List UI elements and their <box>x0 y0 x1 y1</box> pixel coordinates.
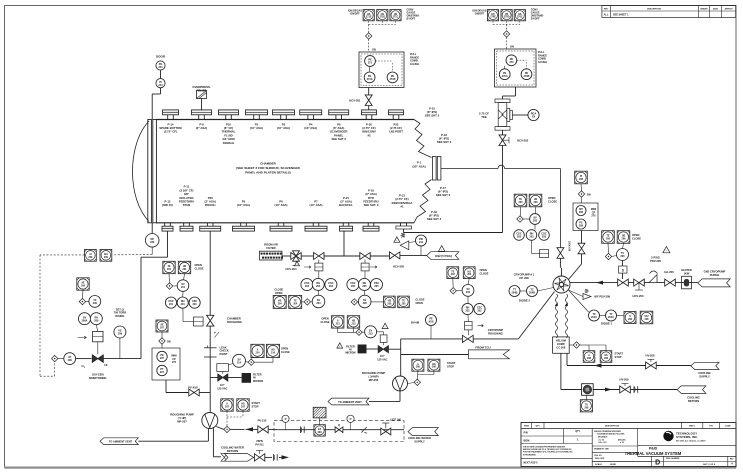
svg-text:214: 214 <box>271 351 276 354</box>
valve MV mech <box>335 424 343 433</box>
svg-text:P/O: P/O <box>709 426 713 428</box>
svg-text:270: 270 <box>509 61 514 64</box>
svg-text:HCV-203: HCV-203 <box>633 294 644 298</box>
svg-text:700 TORR: 700 TORR <box>114 311 126 315</box>
full range comb gauge 1 (PE-271) <box>359 52 420 88</box>
svg-text:#2: #2 <box>367 133 371 137</box>
svg-text:DRAWN BY JMS: DRAWN BY JMS <box>594 448 609 451</box>
svg-text:XXX: XXX <box>428 321 433 324</box>
svg-text:ITEM: ITEM <box>524 426 529 428</box>
svg-text:(NW 16): (NW 16) <box>162 203 172 207</box>
valve PV-210 <box>246 418 275 433</box>
full range comb gauge 2 (PE-270) <box>495 49 548 87</box>
wire cryo roughing diagonal <box>473 292 554 339</box>
svg-text:(10" ASA): (10" ASA) <box>304 126 317 130</box>
svg-text:STOP: STOP <box>615 355 622 359</box>
svg-text:OPEN: OPEN <box>275 291 282 295</box>
svg-text:201: 201 <box>181 286 186 289</box>
chamber label <box>236 162 300 175</box>
filter 40 micron (chamber) <box>242 373 264 383</box>
svg-text:THERMAL VACUUM SYSTEM: THERMAL VACUUM SYSTEM <box>625 451 682 456</box>
controller TV-206 <box>605 249 628 280</box>
svg-text:207: 207 <box>241 406 246 409</box>
RGA-XX analyzer <box>512 109 539 120</box>
svg-text:209: 209 <box>88 256 93 259</box>
wire TCU line <box>401 354 469 356</box>
panel TE-201 / HS-201 open-close <box>163 261 204 283</box>
svg-text:(SEE SHEET 3 FOR SHROUD, SCAVE: (SEE SHEET 3 FOR SHROUD, SCAVENGER <box>236 166 300 170</box>
svg-text:MP-207: MP-207 <box>177 420 187 424</box>
flag TO AMBIENT VENT 1 <box>100 428 208 444</box>
svg-text:HELIUM: HELIUM <box>556 339 566 343</box>
svg-text:201: 201 <box>167 268 172 271</box>
port P-19 <box>363 188 379 231</box>
port P-21 <box>339 196 353 231</box>
svg-text:271E: 271E <box>366 16 372 19</box>
svg-text:209: 209 <box>104 256 109 259</box>
svg-text:208: 208 <box>416 366 421 369</box>
flow arrow cooling supply <box>594 363 602 367</box>
svg-text:202: 202 <box>467 273 472 276</box>
svg-text:ON: ON <box>372 49 376 52</box>
svg-text:SUPPLY: SUPPLY <box>699 375 710 379</box>
svg-text:203: 203 <box>517 236 522 239</box>
svg-text:270E: 270E <box>490 16 496 19</box>
svg-text:START: START <box>615 352 624 356</box>
warning triangle purge2 <box>382 323 388 329</box>
svg-text:CHAMBER: CHAMBER <box>227 317 241 321</box>
solenoid SV-205 cluster <box>351 295 383 308</box>
svg-text:!: ! <box>339 345 340 349</box>
svg-text:271: 271 <box>368 62 373 65</box>
svg-text:CC-208: CC-208 <box>556 345 565 349</box>
relays CSC/RH/CSC-203 <box>514 224 550 240</box>
revision table <box>602 6 736 18</box>
svg-text:204: 204 <box>293 302 298 305</box>
wire + arrow to HV-209 <box>593 388 620 392</box>
svg-text:CLOSE: CLOSE <box>281 351 290 354</box>
filter/adsorber <box>582 384 594 396</box>
svg-text:CLOSE: CLOSE <box>632 237 641 241</box>
hand switches gauge 2 <box>472 9 544 50</box>
roughing pump MP-208 <box>362 371 408 391</box>
svg-text:HV-XXX: HV-XXX <box>568 241 572 251</box>
svg-text:204A: 204A <box>591 316 597 319</box>
wire GN2 manifold <box>282 231 427 256</box>
svg-text:TO AMBIENT VENT: TO AMBIENT VENT <box>109 440 133 444</box>
valve HCV-202 <box>499 130 529 165</box>
solenoid SV-214 <box>228 354 273 367</box>
solenoid SV-204 cluster <box>302 295 325 308</box>
svg-text:ON/OFF: ON/OFF <box>350 13 360 16</box>
svg-text:SEE SHT 3: SEE SHT 3 <box>437 140 452 144</box>
svg-text:OPEN: OPEN <box>480 268 487 272</box>
node diamond helium <box>569 342 606 351</box>
svg-text:205: 205 <box>387 302 392 305</box>
node diamond oxygen <box>79 296 101 308</box>
check valve helium return <box>630 386 677 392</box>
svg-text:202: 202 <box>466 291 471 294</box>
wire cooling supply line <box>567 353 646 365</box>
panel S-208 / TAZ-208 <box>624 311 653 324</box>
relays 204 CSC/RH/CSC <box>301 271 337 295</box>
svg-text:205: 205 <box>374 285 379 288</box>
svg-text:STOP: STOP <box>252 404 259 408</box>
svg-text:PV-211: PV-211 <box>255 442 264 446</box>
svg-text:LN2 PORT: LN2 PORT <box>389 130 403 134</box>
svg-text:MAT'L: MAT'L <box>689 425 696 428</box>
svg-text:ON: ON <box>510 46 514 49</box>
port P7 <box>305 200 327 232</box>
diode 2 sensors TT-204B TC-204B <box>509 286 554 303</box>
svg-text:(10" ASA): (10" ASA) <box>250 126 263 130</box>
wire gauge2 to tee <box>503 87 516 99</box>
solenoid SV-209A / RV-209 <box>79 313 103 332</box>
svg-text:230: 230 <box>150 241 155 244</box>
svg-text:201: 201 <box>181 303 186 306</box>
svg-text:1KW: 1KW <box>684 272 690 276</box>
valve TV-206 body <box>618 279 629 286</box>
svg-text:407 147th. Ave. Madeira, Ca. 9: 407 147th. Ave. Madeira, Ca. 95670 <box>676 440 705 443</box>
svg-text:205: 205 <box>363 302 368 305</box>
svg-text:CLOSE: CLOSE <box>548 200 557 204</box>
flag FROM TCU <box>469 345 510 359</box>
check valve mech pump <box>301 427 305 433</box>
svg-text:DATE: DATE <box>713 8 719 11</box>
port P-13 with flange <box>392 194 413 233</box>
svg-text:214: 214 <box>237 361 242 364</box>
svg-text:SEE SHT 3: SEE SHT 3 <box>425 114 440 118</box>
helium flex lines <box>555 294 568 338</box>
valve HCV-203 <box>633 279 645 298</box>
svg-text:PANEL AND PLATEN DETAILS): PANEL AND PLATEN DETAILS) <box>245 171 291 175</box>
svg-text:204: 204 <box>278 302 283 305</box>
port P23 <box>200 196 221 231</box>
panel A-214 / HS-214 open-close <box>251 344 290 357</box>
flag COOLING WATER SUPPLY <box>408 428 438 444</box>
svg-text:205: 205 <box>351 285 356 288</box>
svg-text:STUB: STUB <box>183 203 191 207</box>
analyzer AE-207 <box>156 320 171 348</box>
union mech pump <box>360 427 367 433</box>
svg-text:BOM: BOM <box>524 439 530 442</box>
svg-text:DN: DN <box>587 194 591 197</box>
valve PV-211 <box>254 439 272 461</box>
svg-text:BY/OFF: BY/OFF <box>531 18 540 21</box>
svg-text:206: 206 <box>622 238 627 241</box>
gauge P mech 1 <box>282 415 289 430</box>
svg-text:270C: 270C <box>517 16 523 19</box>
svg-text:CHAMBER: CHAMBER <box>260 162 277 166</box>
svg-text:(2" ASA): (2" ASA) <box>196 126 207 130</box>
svg-text:909: 909 <box>318 431 323 434</box>
svg-text:CLOSE: CLOSE <box>274 288 283 292</box>
solenoid SV-213 <box>356 326 384 338</box>
cryopump gate valve <box>557 248 564 268</box>
solenoid SV-203 <box>517 214 541 225</box>
svg-text:D: D <box>655 460 660 467</box>
panel TE/HS open-close (cryo purge) <box>321 316 360 333</box>
svg-text:209: 209 <box>81 285 86 288</box>
svg-text:DESCRIPTION: DESCRIPTION <box>605 426 620 428</box>
svg-text:SHT. 2 OF 4: SHT. 2 OF 4 <box>703 463 716 466</box>
svg-text:DOOR: DOOR <box>156 55 166 59</box>
svg-text:244: 244 <box>158 84 163 87</box>
label P-15 <box>425 107 440 118</box>
svg-text:FILTER: FILTER <box>266 246 275 250</box>
wire cryopump inlet <box>561 268 563 276</box>
svg-text:270: 270 <box>591 215 596 218</box>
svg-text:204A: 204A <box>608 316 614 319</box>
svg-text:MICRON: MICRON <box>345 352 355 355</box>
svg-text:209: 209 <box>93 302 98 305</box>
valve HA-206 <box>664 270 675 286</box>
svg-text:203: 203 <box>519 201 524 204</box>
svg-text:QTY.: QTY. <box>575 431 580 433</box>
svg-text:COMP.: COMP. <box>557 342 565 346</box>
solenoid SV-202 <box>450 285 474 304</box>
svg-text:COOLING: COOLING <box>687 395 700 399</box>
svg-text:207: 207 <box>160 357 165 360</box>
roughing pump MP-207 <box>170 413 217 429</box>
panel start/stop pump2 <box>408 359 456 385</box>
svg-text:BV-6M: BV-6M <box>411 320 420 324</box>
svg-text:P: P <box>350 417 352 421</box>
label P-16 <box>437 133 452 144</box>
svg-text:CLOSE: CLOSE <box>321 320 330 324</box>
svg-text:(10" ASA): (10" ASA) <box>275 203 288 207</box>
svg-text:SEE SHT. 3: SEE SHT. 3 <box>364 203 379 207</box>
svg-text:SEE SHT 3: SEE SHT 3 <box>427 217 442 221</box>
svg-text:209A: 209A <box>82 319 88 322</box>
2.75 CF tee assembly <box>479 99 512 130</box>
svg-text:ROUGHING PUMP: ROUGHING PUMP <box>362 371 386 375</box>
svg-text:208: 208 <box>587 357 592 360</box>
panel AI-209 / AIA-209 <box>85 249 112 261</box>
svg-text:206: 206 <box>606 238 611 241</box>
svg-text:.XX ± .010: .XX ± .010 <box>598 442 606 444</box>
svg-text:206: 206 <box>620 255 625 258</box>
relays RH-202 CSC-202 <box>462 303 485 321</box>
svg-text:204: 204 <box>316 302 321 305</box>
svg-text:DWG. NUMBER: DWG. NUMBER <box>666 458 680 460</box>
wire GN2 purge line <box>570 282 698 284</box>
svg-text:ROUGHING: ROUGHING <box>488 332 503 336</box>
svg-text:213: 213 <box>336 322 341 325</box>
svg-text:PV-210: PV-210 <box>258 418 267 422</box>
svg-text:208: 208 <box>645 318 650 321</box>
leak check port <box>204 345 229 357</box>
flow arrow pump1 <box>246 427 254 431</box>
svg-text:208: 208 <box>604 357 609 360</box>
flag TO AMBIENT VENT 2 <box>328 398 369 405</box>
svg-text:SCALE: SCALE <box>595 463 602 466</box>
svg-text:FE: FE <box>104 364 108 367</box>
svg-text:OPEN: OPEN <box>632 233 639 237</box>
valve O2 FE (oxygen monitoring) <box>76 355 108 380</box>
svg-text:CODE: CODE <box>725 426 732 428</box>
svg-text:GAUGE: GAUGE <box>538 61 548 64</box>
node diamond O2 line <box>52 355 58 361</box>
port P-14 <box>159 110 182 134</box>
svg-text:BY/OFF: BY/OFF <box>407 18 416 21</box>
svg-text:START: START <box>447 361 456 365</box>
door gauge PG-244 <box>152 55 166 120</box>
svg-text:201: 201 <box>193 303 198 306</box>
svg-text:COOLING WATER: COOLING WATER <box>408 436 431 440</box>
svg-text:PV-XXX: PV-XXX <box>188 385 198 389</box>
svg-text:.X ± .03: .X ± .03 <box>598 439 604 441</box>
svg-text:GN2 CRYOPUMP: GN2 CRYOPUMP <box>704 270 726 274</box>
valve HV-209 <box>620 378 631 393</box>
svg-text:OPEN: OPEN <box>416 301 423 305</box>
controller MINI CP 275 <box>152 348 180 380</box>
svg-text:SUPPLY: SUPPLY <box>414 439 425 443</box>
valve HV-XXX (cryo) <box>568 231 586 280</box>
valve HCV-201 <box>349 88 372 111</box>
svg-text:208: 208 <box>579 225 584 228</box>
svg-text:COOLING: COOLING <box>698 371 711 375</box>
temp alarm TAS-208 <box>580 395 592 412</box>
analyzer AE-209 <box>77 278 89 299</box>
gate valve actuator <box>532 240 549 257</box>
solenoid SV-201 <box>166 280 189 297</box>
port P10 <box>219 110 239 145</box>
svg-text:271D: 271D <box>379 16 385 19</box>
svg-text:P: P <box>285 417 287 421</box>
wire main line P-1 to cryo valve <box>441 165 560 248</box>
svg-text:NONE: NONE <box>610 464 616 466</box>
svg-text:DECIMALS: DECIMALS <box>598 436 608 439</box>
svg-text:!: ! <box>385 325 386 329</box>
overpressure relief on P-8 <box>192 85 210 111</box>
svg-text:QTY.: QTY. <box>535 426 540 428</box>
exhaust filter EX-909 <box>313 407 326 436</box>
mechanical pump dashed enclosure <box>274 421 404 442</box>
chamber roughing valve <box>194 315 242 337</box>
svg-text:CLOSE: CLOSE <box>480 272 489 276</box>
port P22 <box>389 110 404 134</box>
gauge P mech 2 <box>347 415 354 430</box>
panel close/open (SV-204) <box>273 288 302 309</box>
svg-text:271A: 271A <box>367 78 373 81</box>
valve SV-205 with actuator <box>360 253 377 271</box>
panel TE-202 / HS-202 open-close <box>447 267 489 288</box>
gauge DP-230 below door <box>145 223 159 255</box>
chamber door <box>133 120 157 223</box>
svg-text:HCV-202: HCV-202 <box>517 139 529 143</box>
svg-text:RISING: RISING <box>115 314 124 318</box>
port P6 <box>270 200 292 232</box>
panel TE-206 / HS-206 open-close <box>602 231 642 253</box>
valve SV-202 cryo roughing <box>462 322 503 343</box>
svg-text:SET @: SET @ <box>116 307 125 311</box>
svg-text:OXYGEN: OXYGEN <box>92 372 104 376</box>
svg-text:211: 211 <box>419 241 424 244</box>
svg-text:CLOSE: CLOSE <box>195 267 204 271</box>
svg-text:APPROV: APPROV <box>725 8 734 11</box>
svg-text:FEMALE: FEMALE <box>223 141 235 145</box>
svg-text:TOLERANCES ARE AS FOLLOWS:: TOLERANCES ARE AS FOLLOWS: <box>597 432 625 435</box>
cryopump CP-208 <box>514 273 570 294</box>
svg-text:CP-208: CP-208 <box>519 276 529 280</box>
zigzag right head lower <box>414 180 432 223</box>
svg-text:CLOSE: CLOSE <box>416 297 425 301</box>
svg-text:MICRON: MICRON <box>253 380 263 383</box>
node diamond pump1 <box>224 426 230 432</box>
svg-text:270D: 270D <box>504 16 510 19</box>
port P5 <box>233 200 255 232</box>
svg-text:FROM TCU: FROM TCU <box>475 345 490 349</box>
svg-text:P/N: P/N <box>524 431 528 434</box>
port P3 <box>273 110 295 130</box>
hand switches gauge 1 (HS ION DEGAS / HS / HS CONV GAUGE) <box>348 9 420 53</box>
pressure switch VS-209 <box>114 307 126 358</box>
svg-text:120 VAC: 120 VAC <box>217 387 227 391</box>
svg-text:5 PSIG: 5 PSIG <box>651 256 660 260</box>
svg-text:MP-208: MP-208 <box>369 378 379 382</box>
warning triangle GN2 flag <box>439 246 445 252</box>
flag COOLING SUPPLY <box>691 362 719 378</box>
svg-text:203: 203 <box>534 201 539 204</box>
svg-text:BACKFILL: BACKFILL <box>339 203 353 207</box>
svg-text:GAUGE: GAUGE <box>410 63 420 66</box>
wire chamber roughing main <box>209 232 211 413</box>
flag COOLING WATER RETURN <box>221 445 254 461</box>
controller MINI CP 270 <box>573 203 598 231</box>
warning triangle backfill <box>394 237 400 243</box>
panel close/open (SV-205) <box>384 296 425 308</box>
svg-text:203: 203 <box>533 220 538 223</box>
panel XS-208 start/stop <box>583 351 623 363</box>
port P-8 <box>192 110 212 130</box>
svg-text:DWG. SIZE: DWG. SIZE <box>595 458 605 460</box>
svg-text:205: 205 <box>362 285 367 288</box>
svg-text:OPEN: OPEN <box>195 263 202 267</box>
svg-text:RETURN: RETURN <box>227 449 238 453</box>
svg-text:NEXT ASS'Y.: NEXT ASS'Y. <box>524 462 539 465</box>
svg-text:244: 244 <box>158 66 163 69</box>
svg-text:( 3/4HP): ( 3/4HP) <box>368 375 378 379</box>
svg-text:RETURN: RETURN <box>688 399 699 403</box>
port P-1 flange (30in ASA) <box>412 157 441 181</box>
wire roughing left segment <box>401 339 463 376</box>
svg-text:TEE: TEE <box>481 115 487 119</box>
wire helium return line <box>561 353 582 389</box>
valve HV-208 <box>646 354 691 369</box>
svg-text:201: 201 <box>183 268 188 271</box>
port P9 <box>329 110 349 141</box>
svg-text:202: 202 <box>465 310 470 313</box>
svg-text:26PN: 26PN <box>256 439 263 443</box>
relief PRV-206 <box>649 256 661 283</box>
svg-text:IS PROHIBITED.: IS PROHIBITED. <box>523 454 537 456</box>
room air filter <box>260 243 284 260</box>
flow arrow into cryopump <box>596 281 603 285</box>
svg-text:(2.75" CF): (2.75" CF) <box>164 130 177 134</box>
port P2 <box>246 110 268 130</box>
wire mech pump line <box>274 429 404 431</box>
svg-text:202: 202 <box>477 310 482 313</box>
wire O2 sample loop <box>103 232 167 359</box>
check valve cooling return <box>274 454 290 460</box>
svg-text:271B: 271B <box>390 78 396 81</box>
valve HCV-204 <box>286 251 302 271</box>
svg-text:45F PSV-208: 45F PSV-208 <box>594 295 610 299</box>
svg-text:HV-208: HV-208 <box>646 354 655 358</box>
svg-text:209: 209 <box>68 359 73 362</box>
port P-12 <box>162 200 173 232</box>
